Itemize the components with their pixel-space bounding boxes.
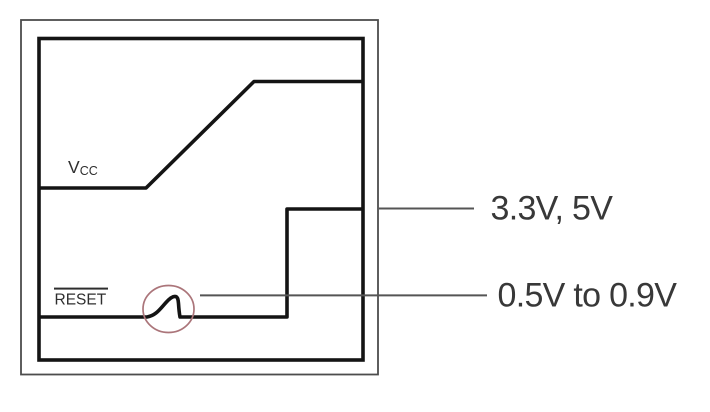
RESET overline <box>54 288 108 290</box>
svg-text:3.3V, 5V: 3.3V, 5V <box>491 190 614 228</box>
wire RESET waveform with glitch <box>39 209 363 317</box>
svg-text:RESET: RESET <box>55 292 107 309</box>
outer frame <box>21 20 378 375</box>
wire leader to 3.3V label <box>379 208 474 210</box>
svg-text:0.5V to 0.9V: 0.5V to 0.9V <box>498 277 678 315</box>
wire VCC waveform <box>39 82 363 189</box>
glitch highlight circle <box>143 286 194 333</box>
wire leader to 0.5V label <box>200 294 487 296</box>
inner frame <box>39 39 363 361</box>
